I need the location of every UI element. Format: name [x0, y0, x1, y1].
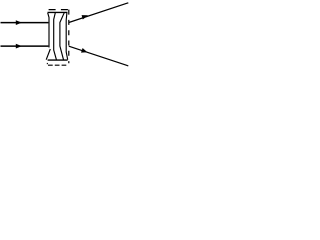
lens bottom flat edge: [48, 59, 68, 61]
wire: lower diverging output ray: [69, 46, 129, 66]
lens top flat edge: [48, 11, 68, 13]
lens element B left surface: [60, 13, 64, 60]
lens element A right surface: [54, 13, 57, 60]
arrowhead on top incoming ray: [16, 20, 22, 25]
dash fragment bottom-left corner: [47, 63, 48, 64]
lens element B right surface: [66, 13, 68, 60]
arrowhead on lower output ray: [81, 48, 87, 53]
wire: upper diverging output ray: [69, 3, 129, 23]
dashed housing box right edge: [68, 10, 70, 64]
wire: bottom incoming ray: [1, 45, 49, 47]
wire: top incoming ray: [1, 22, 49, 24]
dashed housing box bottom edge: [48, 64, 67, 66]
arrowhead on upper output ray: [82, 15, 88, 19]
lens element A left surface: [46, 13, 50, 60]
arrowhead on bottom incoming ray: [16, 44, 22, 49]
dashed housing box top edge: [49, 9, 69, 11]
